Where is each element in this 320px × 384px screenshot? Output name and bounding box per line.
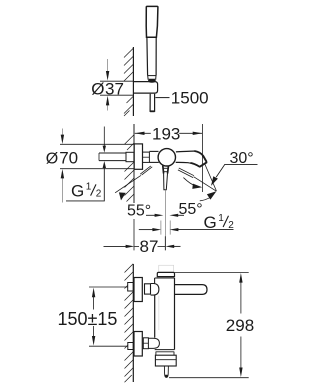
handle joint line — [148, 75, 156, 77]
dim Ø70 extension lines — [60, 143, 134, 145]
wall holder bracket — [133, 82, 157, 94]
svg-text:1: 1 — [218, 213, 224, 224]
knob — [157, 272, 174, 276]
dim 193 line — [135, 132, 151, 134]
dim Ø70 arrows — [61, 129, 63, 136]
head/handle joint — [148, 36, 156, 38]
wall — [132, 264, 134, 382]
lever hub — [163, 166, 169, 174]
30° leader — [216, 164, 257, 177]
svg-text:55°: 55° — [127, 202, 151, 219]
wall / left extension line — [133, 124, 135, 203]
handle — [147, 37, 156, 75]
dim Ø37 extension lines — [100, 80, 133, 82]
svg-text:2: 2 — [96, 188, 102, 199]
knob faint upper — [159, 265, 174, 272]
wall hatching — [125, 135, 134, 202]
body bottom joint lines — [155, 349, 175, 351]
svg-text:2: 2 — [228, 220, 234, 231]
svg-text:30°: 30° — [230, 150, 254, 167]
dim Ø37 arrows — [107, 59, 109, 72]
left swing arrow — [119, 192, 126, 200]
right swing arc + arrow — [183, 178, 195, 186]
body — [154, 278, 156, 284]
bottom union fitting — [128, 343, 134, 350]
svg-text:87: 87 — [140, 237, 159, 256]
lever centre line — [165, 190, 167, 250]
spout — [176, 151, 207, 167]
svg-text:1: 1 — [86, 181, 92, 192]
svg-text:70: 70 — [59, 149, 78, 168]
bottom escutcheon — [134, 332, 142, 357]
top union fitting — [128, 283, 134, 292]
shower outlet lines — [160, 221, 162, 235]
G1/2 left pipe dim arrows — [103, 127, 105, 147]
wall — [132, 47, 134, 116]
wall nipple — [126, 152, 134, 161]
cartridge cap circle — [158, 149, 175, 166]
shower head — [146, 6, 158, 37]
body tube — [149, 150, 158, 152]
svg-text:1500: 1500 — [171, 89, 209, 108]
handle end cone — [148, 76, 156, 80]
55° leader arrows — [146, 214, 155, 216]
elbow — [148, 338, 159, 348]
bottom connector — [143, 338, 148, 349]
svg-text:Ø: Ø — [46, 151, 58, 168]
top escutcheon — [134, 278, 142, 302]
dim 298 extension lines — [175, 271, 249, 273]
svg-text:G: G — [204, 213, 217, 232]
svg-text:37: 37 — [105, 80, 124, 99]
lever — [164, 174, 168, 190]
dim 150±15 extension lines — [89, 286, 128, 288]
hose nut — [155, 355, 176, 366]
svg-text:193: 193 — [152, 124, 180, 143]
G1/2 left leader corner — [66, 168, 104, 201]
connector nut — [143, 152, 150, 162]
escutcheon — [134, 144, 142, 169]
top connector — [145, 284, 151, 294]
right extension line — [201, 124, 203, 192]
inlet pipe — [99, 152, 126, 154]
svg-text:G: G — [71, 181, 84, 200]
spout side — [175, 285, 208, 295]
leader 1500 — [155, 97, 169, 99]
svg-text:Ø: Ø — [91, 80, 104, 99]
spout tilted line — [205, 164, 217, 191]
dim 298 arrows — [239, 273, 242, 283]
wall hatching — [125, 264, 134, 383]
dim 87 — [164, 236, 166, 250]
hose stub — [164, 366, 168, 377]
svg-text:150±15: 150±15 — [58, 309, 118, 329]
tilted lever right — [178, 168, 217, 191]
junction arrow (30° arc end) — [207, 191, 217, 199]
dim 150±15 arrows — [92, 288, 95, 298]
top elbow — [151, 284, 159, 296]
hose stub — [150, 94, 155, 112]
tilted lever left — [115, 166, 152, 193]
G1/2 right dim arrows + leader — [139, 229, 153, 231]
svg-text:298: 298 — [226, 316, 254, 335]
handle dark cap — [148, 79, 156, 83]
wall hatching — [124, 48, 133, 116]
